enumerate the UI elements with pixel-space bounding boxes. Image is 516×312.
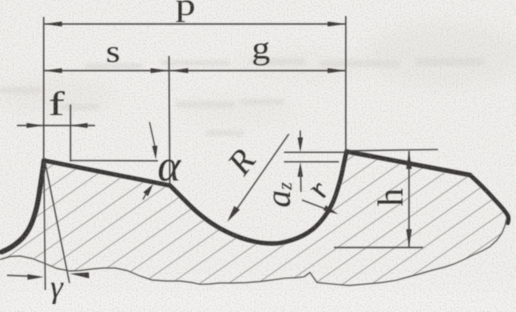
dimension line s/g <box>44 70 346 72</box>
dimension line f <box>17 125 95 127</box>
paper mottling mid top <box>230 51 370 79</box>
a_z upper reference line <box>284 151 345 153</box>
r arrowhead <box>323 205 338 214</box>
alpha upper leader <box>150 122 156 147</box>
alpha lower arrowhead (up-right) <box>143 184 153 196</box>
tooth profile: gullet curve radius R (thick) <box>170 152 347 244</box>
alpha lower leader <box>143 192 147 200</box>
h bottom arrowhead (down) <box>406 229 412 247</box>
a_z upper arrowhead (down) <box>298 138 303 153</box>
tooth profile: right tooth back corner (thick) <box>470 175 508 223</box>
arrow p right <box>328 22 346 27</box>
break line: bottom wavy line <box>0 219 507 286</box>
paper mottling top right <box>365 23 516 87</box>
a_z lower arrow shaft <box>300 172 302 192</box>
dimension line p <box>44 23 346 25</box>
paper mottling center <box>180 96 300 124</box>
extension line middle s/g boundary (x=169) <box>168 56 171 186</box>
faint bleed-through marks <box>0 58 485 136</box>
h dimension shaft <box>408 151 410 247</box>
arrow p left <box>44 22 62 27</box>
gamma left arrowhead (right) <box>28 274 44 279</box>
r leader line <box>302 200 327 210</box>
h top arrowhead (up) <box>406 151 412 169</box>
paper light bottom <box>0 292 516 312</box>
gamma vertical line A <box>44 162 46 290</box>
arrow f pointing left at x=70.6 <box>71 123 88 128</box>
hatched material region <box>0 152 508 286</box>
h top reference line <box>347 150 438 151</box>
paper mottling mid left <box>0 77 115 113</box>
extension line right tooth tip (x=345.8) <box>345 16 347 152</box>
gamma left arrow shaft <box>7 274 29 277</box>
gamma right arrowhead (left) <box>70 272 89 278</box>
alpha horizontal reference line <box>71 160 159 162</box>
arrow f pointing right at x=43.6 <box>27 123 44 128</box>
tooth profile: left tooth front face (thick) <box>2 161 45 253</box>
arrow g left <box>170 68 188 73</box>
extension line for f right side (x=70.5) <box>70 105 72 162</box>
R leader line <box>232 134 289 216</box>
arrow g right <box>328 68 346 73</box>
a_z lower arrowhead (up) <box>298 162 303 177</box>
arrow s left <box>44 68 62 73</box>
a_z lower reference line <box>284 161 339 163</box>
gamma slanted line B <box>45 162 70 283</box>
R arrowhead <box>227 206 240 222</box>
tooth profile: left tooth top edge (thick) <box>44 161 170 186</box>
alpha upper arrowhead (down) <box>152 146 157 160</box>
tooth profile: right tooth top edge (thick) <box>347 152 471 176</box>
extension line at left tooth tip (x=43.7) <box>43 17 45 160</box>
a_z upper arrow shaft <box>299 131 301 150</box>
h bottom reference line <box>334 247 423 249</box>
arrow s right <box>151 68 169 73</box>
